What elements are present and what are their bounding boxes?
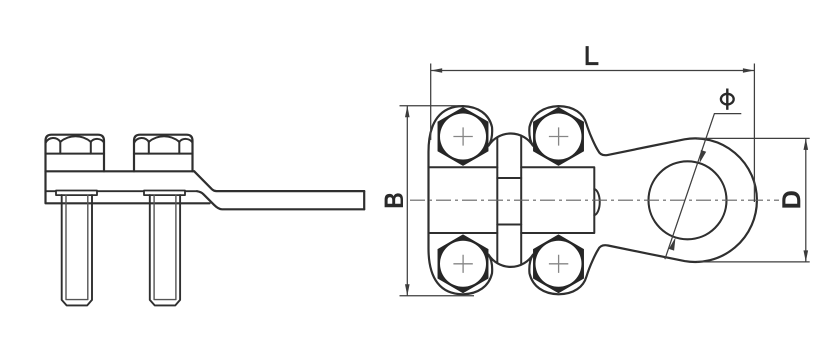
center gap verticals	[497, 136, 521, 265]
bolt head 2 (side view)	[134, 135, 193, 172]
dimension lines	[400, 64, 810, 296]
bolt D hexagon	[533, 234, 584, 293]
ring inner hole	[649, 161, 727, 239]
bolt crosses	[453, 127, 568, 273]
hex bolts (top view)	[438, 107, 584, 293]
bolt head 1 (side view)	[46, 135, 105, 172]
arrowheads	[405, 68, 808, 296]
L dimension line	[431, 70, 755, 72]
label B	[385, 193, 403, 207]
phi arrows	[700, 150, 707, 163]
clamp plate (side view)	[46, 171, 210, 203]
B arrow bottom	[405, 284, 410, 296]
upper bend and tongue top	[194, 171, 364, 191]
bolt face circles	[440, 114, 486, 160]
bolt B hexagon	[533, 107, 584, 166]
bolt C hexagon	[438, 234, 489, 293]
D extension lines	[697, 138, 810, 262]
L arrow left	[431, 68, 443, 73]
washer 2	[144, 191, 185, 196]
D dimension line	[805, 138, 807, 262]
lower bend and tongue bottom	[197, 191, 364, 209]
D arrow bottom	[804, 250, 809, 262]
L arrow right	[743, 68, 755, 73]
L extension lines	[431, 64, 755, 203]
phi symbol	[721, 89, 734, 110]
labels	[385, 46, 801, 208]
joint line	[46, 190, 198, 192]
B arrow top	[405, 106, 410, 118]
stud 1	[62, 195, 92, 305]
hinge pin bump	[594, 189, 599, 215]
phi leader	[665, 114, 741, 260]
B extension lines	[400, 106, 475, 296]
center gap horizontals	[497, 178, 521, 225]
bolt A hexagon	[438, 107, 489, 166]
washer 1	[56, 191, 97, 196]
label L	[586, 46, 599, 65]
top view body outline	[429, 106, 757, 294]
D arrow top	[804, 138, 809, 150]
tongue right edge	[363, 191, 365, 209]
center line	[410, 199, 779, 201]
label D	[782, 191, 800, 207]
stud 2	[150, 195, 180, 305]
clamp band lines (top view)	[429, 167, 595, 233]
B dimension line	[406, 106, 408, 296]
